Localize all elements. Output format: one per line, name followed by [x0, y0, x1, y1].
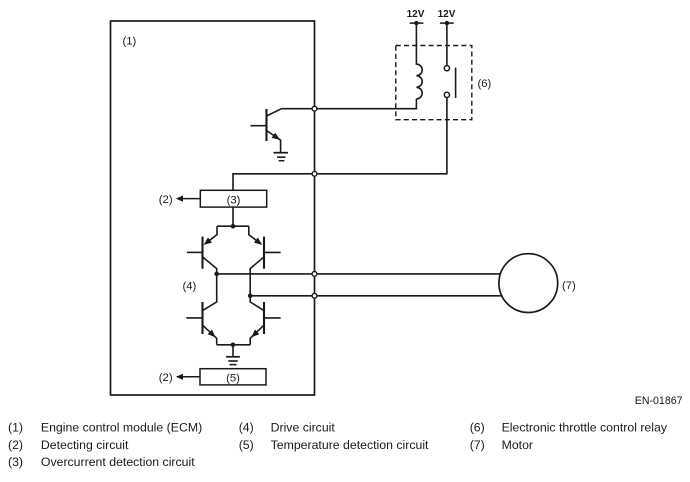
arrow: box (5) to detecting circuit (2): [176, 374, 200, 380]
node: right bridge output: [248, 294, 253, 299]
svg-text:EN-01867: EN-01867: [635, 395, 683, 407]
pin: ECM motor output lower: [312, 293, 317, 298]
wire: Q1 collector to relay coil: [282, 99, 417, 109]
box (3) overcurrent detection: [200, 190, 266, 207]
svg-text:(5): (5): [226, 372, 240, 384]
wire: bridge bottom rail: [217, 344, 251, 346]
svg-text:(6): (6): [478, 78, 492, 90]
svg-text:(7): (7): [470, 438, 485, 452]
svg-text:(3): (3): [8, 455, 23, 469]
wire: lower motor wire: [250, 295, 502, 297]
svg-text:Engine control module (ECM): Engine control module (ECM): [41, 421, 202, 435]
svg-text:Drive circuit: Drive circuit: [271, 421, 336, 435]
12V supply left: [407, 9, 425, 25]
wire: bridge bottom to ground: [232, 345, 234, 356]
motor M (7): [499, 254, 558, 313]
svg-text:Detecting circuit: Detecting circuit: [41, 438, 129, 452]
pin: ECM motor output upper: [312, 272, 317, 277]
relay switch SW1: [444, 23, 455, 98]
svg-text:(3): (3): [227, 194, 241, 206]
svg-text:(7): (7): [562, 280, 576, 292]
svg-text:Motor: Motor: [502, 438, 533, 452]
svg-text:(1): (1): [8, 421, 23, 435]
relay (6) dashed enclosure: [396, 46, 472, 120]
svg-text:(2): (2): [159, 372, 173, 384]
svg-text:(2): (2): [8, 438, 23, 452]
svg-text:(6): (6): [470, 421, 485, 435]
ECM box (1): [111, 21, 315, 395]
svg-text:(1): (1): [123, 36, 137, 48]
node: bridge bottom junction: [231, 343, 236, 348]
pin: ECM throttle signal input: [312, 171, 317, 176]
node: left bridge output: [214, 272, 219, 277]
ground G1: [274, 153, 289, 161]
box (5) temperature detection: [200, 369, 266, 385]
12V supply right: [438, 9, 456, 25]
wire: box (3) to bridge top: [232, 207, 234, 226]
node: bridge top junction: [231, 224, 236, 229]
transistor Q5 (bridge bottom-right, NPN): [250, 296, 280, 345]
transistor Q3 (bridge top-right, PNP): [249, 226, 281, 296]
transistor Q4 (bridge bottom-left, NPN): [186, 274, 216, 345]
svg-text:(5): (5): [239, 438, 254, 452]
svg-text:(2): (2): [159, 194, 173, 206]
ground G2: [226, 357, 240, 365]
svg-text:(4): (4): [183, 281, 197, 293]
svg-text:Overcurrent detection circuit: Overcurrent detection circuit: [41, 455, 195, 469]
transistor Q2 (bridge top-left, PNP): [187, 226, 217, 274]
arrow: box (3) to detecting circuit (2): [176, 196, 201, 202]
relay coil L1 (with 12V feed wire): [416, 23, 422, 99]
wire: bridge top rail: [217, 225, 249, 227]
transistor Q1 (relay drive, NPN): [251, 109, 282, 153]
svg-text:Temperature detection circuit: Temperature detection circuit: [271, 438, 429, 452]
wire: upper motor wire: [217, 273, 501, 275]
svg-text:12V: 12V: [438, 9, 456, 20]
svg-text:Electronic throttle control re: Electronic throttle control relay: [502, 421, 668, 435]
wire: relay switch to box (3): [233, 98, 447, 191]
pin: ECM relay-coil output: [312, 106, 317, 111]
svg-text:(4): (4): [239, 421, 254, 435]
svg-text:12V: 12V: [407, 9, 425, 20]
